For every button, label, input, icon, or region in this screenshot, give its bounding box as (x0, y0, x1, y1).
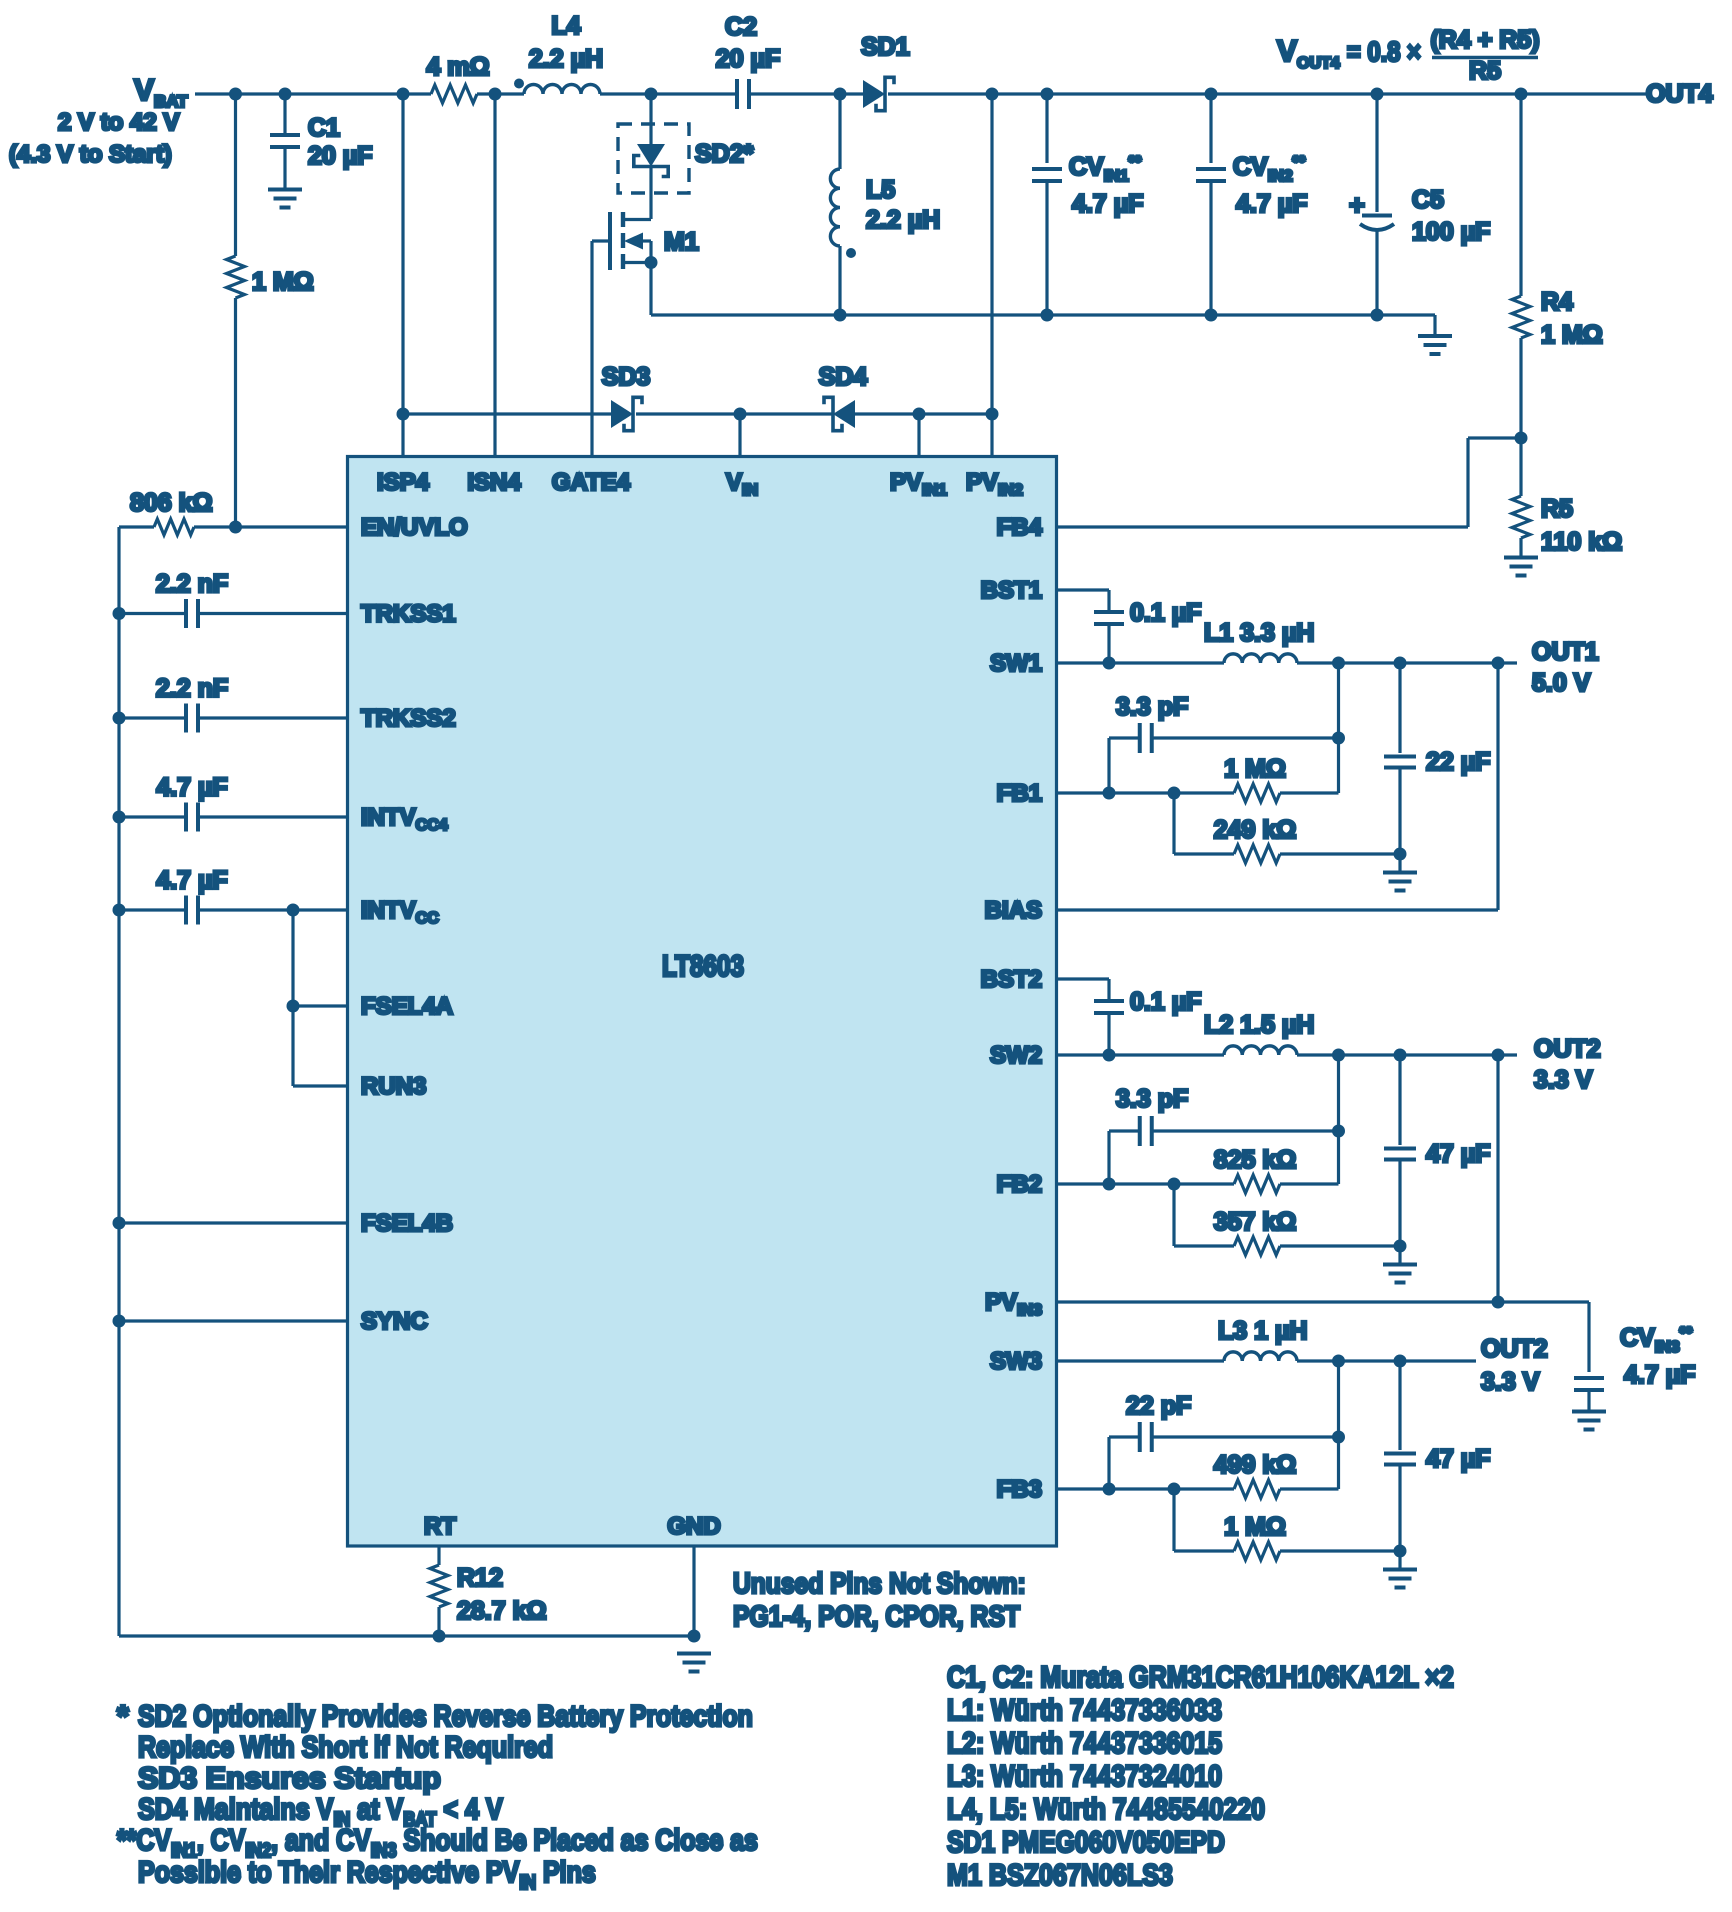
svg-text:FB4: FB4 (997, 514, 1043, 541)
resistor 499 kOhm FB3 (1234, 1480, 1280, 1498)
resistor 357 kOhm (1234, 1237, 1280, 1255)
wire fb vertical ch3 (1337, 1361, 1340, 1489)
phase dot L4 (514, 79, 524, 89)
wire rail between 4mOhm and L4 (477, 92, 524, 95)
wire SD4 to PVIN2 (854, 412, 992, 415)
wire R5 top (1519, 438, 1522, 496)
wire VIN vertical (738, 414, 741, 457)
node SW3 cout junction (1394, 1355, 1407, 1368)
svg-text:SD1: SD1 (861, 33, 910, 61)
wire cap leg down to FB1 (1107, 738, 1110, 793)
node left rail at row 718 (113, 712, 126, 725)
wire 357k row b (1280, 1244, 1400, 1247)
wire left rail vertical (117, 527, 120, 1636)
svg-text:3.3 V: 3.3 V (1481, 1368, 1540, 1396)
wire SD3 row left (403, 412, 612, 415)
svg-text:1 MΩ: 1 MΩ (252, 268, 314, 296)
svg-text:R4: R4 (1541, 288, 1573, 316)
wire M1 drain-source vertical (649, 241, 652, 315)
wire PVIN2 vertical (990, 94, 993, 457)
node SW1 fb junction (1332, 657, 1345, 670)
svg-text:L1: Würth 74437336033: L1: Würth 74437336033 (947, 1693, 1222, 1727)
capacitor 3.3 pF ch2 (1138, 1116, 1142, 1146)
svg-text:825 kΩ: 825 kΩ (1214, 1146, 1297, 1174)
op-amp U1 LT8603 IC body (348, 457, 1057, 1547)
svg-text:499 kΩ: 499 kΩ (1214, 1451, 1297, 1479)
wire CVIN2 bottom (1209, 181, 1212, 315)
svg-text:OUT1: OUT1 (1532, 638, 1599, 666)
svg-text:SD1 PMEG060V050EPD: SD1 PMEG060V050EPD (947, 1825, 1225, 1859)
node fb vertical ch2 at 3.3pF (1332, 1125, 1345, 1138)
wire BST2 stub (1057, 977, 1110, 980)
wire BST2 cap bottom (1107, 1013, 1110, 1055)
svg-text:3.3 V: 3.3 V (1534, 1066, 1593, 1094)
transistor M1 body arrow (624, 233, 643, 250)
node FB1 cap leg (1103, 787, 1116, 800)
wire 1M ch3 row a (1174, 1549, 1234, 1552)
svg-text:FB3: FB3 (997, 1476, 1042, 1503)
wire 1M bottom segment (234, 298, 237, 527)
svg-text:(R4 + R5): (R4 + R5) (1430, 26, 1539, 54)
wire R4 bottom (1519, 338, 1522, 438)
wire PVIN3 row (1057, 1300, 1590, 1303)
node FB2 357k leg (1168, 1178, 1181, 1191)
svg-text:249 kΩ: 249 kΩ (1214, 816, 1297, 844)
svg-text:22 µF: 22 µF (1426, 748, 1490, 776)
node left rail at row 910 (113, 904, 126, 917)
resistor 1 MOhm FB3 (1234, 1542, 1280, 1560)
svg-text:L4: L4 (551, 12, 580, 40)
node junction to CVIN2 (1205, 88, 1218, 101)
capacitor 0.1uF BST1 (1094, 610, 1124, 614)
wire SW1 row to L1 (1057, 661, 1225, 664)
wire FB3 row segment a (1057, 1487, 1235, 1490)
wire R5 bottom (1519, 538, 1522, 556)
capacitor 4.7 µF at row 817 (184, 803, 188, 832)
svg-text:4.7 µF: 4.7 µF (156, 867, 227, 895)
wire 1M top segment (234, 94, 237, 256)
svg-text:OUT2: OUT2 (1534, 1035, 1601, 1063)
svg-text:C1: C1 (308, 114, 340, 142)
wire FB4 to IC (1057, 525, 1469, 528)
capacitor C2 20uF (series) (735, 79, 739, 109)
wire FB4 jog horizontal (1468, 436, 1521, 439)
svg-text:RUN3: RUN3 (361, 1073, 426, 1100)
transistor M1 NMOS gate bar (608, 212, 612, 270)
svg-text:C1, C2: Murata GRM31CR61H106KA: C1, C2: Murata GRM31CR61H106KA12L ×2 (947, 1660, 1454, 1694)
capacitor 47 uF ch2 (1384, 1147, 1416, 1151)
wire GATE4 vertical to M1 gate (590, 241, 593, 457)
svg-text:R5: R5 (1469, 57, 1501, 85)
wire 357k vertical (1172, 1184, 1175, 1246)
capacitor C1 20uF (270, 133, 300, 137)
wire BST2 cap top (1107, 979, 1110, 1000)
wire row y=613.5 left (119, 612, 186, 615)
node PVIN2 at SD4 row (986, 408, 999, 421)
node SW1 cout junction (1394, 657, 1407, 670)
wire FB1 row segment a (1057, 791, 1235, 794)
wire 1M ch3 vertical (1172, 1489, 1175, 1551)
svg-text:TRKSS1: TRKSS1 (361, 601, 456, 628)
svg-text:M1: M1 (664, 228, 699, 256)
capacitor 0.1uF BST2 (1094, 999, 1124, 1003)
resistor R4 1 MOhm (1512, 296, 1530, 338)
svg-text:L3: Würth 74437324010: L3: Würth 74437324010 (947, 1759, 1222, 1793)
wire FSEL4B row (119, 1221, 348, 1224)
node 1M/47uF/gnd ch3 (1394, 1545, 1407, 1558)
wire rail L4 to C2 (600, 92, 737, 95)
svg-text:(4.3 V to Start): (4.3 V to Start) (9, 141, 172, 168)
svg-text:RT: RT (424, 1513, 456, 1540)
wire row y=613.5 right (198, 612, 348, 615)
wire BST1 cap vertical top (1107, 590, 1110, 611)
ground OUT2 ch3 filter (1383, 1568, 1417, 1572)
svg-text:Unused Pins Not Shown:: Unused Pins Not Shown: (733, 1567, 1026, 1599)
wire 357k row a (1174, 1244, 1234, 1247)
svg-text:GATE4: GATE4 (552, 469, 631, 496)
wire L5 bottom (838, 246, 841, 315)
svg-text:L2: Würth 74437336015: L2: Würth 74437336015 (947, 1726, 1222, 1760)
node FB3 cap leg (1103, 1483, 1116, 1496)
node SW1 bias junction (1492, 657, 1505, 670)
capacitor C5 100uF polarized (1362, 214, 1392, 218)
wire 22uF top (1398, 663, 1401, 753)
node SW2 fb junction (1332, 1049, 1345, 1062)
svg-text:4.7 µF: 4.7 µF (1236, 190, 1307, 218)
node FB2 cap leg (1103, 1178, 1116, 1191)
node junction to CVIN1 (1041, 88, 1054, 101)
wire 806k row left (119, 525, 154, 528)
svg-text:+: + (1349, 190, 1365, 220)
ground OUT1 filter (1383, 871, 1417, 875)
capacitor 22 uF (1384, 755, 1416, 759)
wire 22uF gnd stub (1398, 854, 1401, 871)
svg-text:2.2 nF: 2.2 nF (156, 675, 228, 703)
node PVIN3 junction (1492, 1296, 1505, 1309)
node junction to C5 (1371, 88, 1384, 101)
node mid rail L5 (834, 309, 847, 322)
svg-text:806 kΩ: 806 kΩ (130, 489, 213, 517)
svg-text:357 kΩ: 357 kΩ (1214, 1208, 1297, 1236)
ground GND pin (677, 1652, 711, 1656)
wire FB1 row segment b (1280, 791, 1339, 794)
wire row y=718 right (198, 716, 348, 719)
svg-text:22 pF: 22 pF (1126, 1392, 1191, 1420)
wire RUN3 stub (293, 1084, 348, 1087)
wire BST1 stub (1057, 588, 1110, 591)
node mid rail CVIN2 (1205, 309, 1218, 322)
wire CVIN3 bottom (1587, 1390, 1590, 1410)
svg-text:110 kΩ: 110 kΩ (1541, 528, 1622, 556)
wire 3.3pF row right (1152, 736, 1339, 739)
wire BIAS row (1057, 908, 1499, 911)
wire L5 top (838, 94, 841, 169)
svg-text:SD3 Ensures Startup: SD3 Ensures Startup (138, 1762, 441, 1795)
svg-text:4 mΩ: 4 mΩ (426, 53, 489, 81)
svg-text:L5: L5 (866, 176, 895, 204)
node VBAT junction to 1M (229, 88, 242, 101)
svg-text:2.2 µH: 2.2 µH (529, 45, 603, 73)
wire SYNC row (119, 1319, 348, 1322)
svg-text:BST1: BST1 (981, 577, 1042, 604)
diode SD1 schottky (863, 80, 885, 108)
svg-text:BST2: BST2 (981, 966, 1042, 993)
wire SW1 after L1 (1297, 661, 1517, 664)
svg-text:TRKSS2: TRKSS2 (361, 705, 456, 732)
node VBAT junction to ISP4 (397, 88, 410, 101)
svg-text:4.7 µF: 4.7 µF (1624, 1361, 1695, 1389)
wire 47uF ch2 gnd stub (1398, 1246, 1401, 1263)
svg-text:OUT4: OUT4 (1646, 80, 1713, 108)
node 249k/22uF/gnd (1394, 848, 1407, 861)
wire BIAS vertical (1496, 663, 1499, 910)
node FB1 249k leg (1168, 787, 1181, 800)
wire C5 bottom (1375, 231, 1378, 315)
node PVIN1 junction (913, 408, 926, 421)
svg-text:ISP4: ISP4 (377, 469, 430, 496)
wire bottom rail (119, 1634, 694, 1637)
svg-text:GND: GND (667, 1513, 720, 1540)
diode SD2 schottky in dashed box (637, 144, 665, 167)
wire C1 bottom (283, 147, 286, 188)
wire CVIN2 top (1209, 94, 1212, 163)
inductor L1 3.3uH (1224, 654, 1297, 663)
node GND on bottom rail (688, 1630, 701, 1643)
svg-text:28.7 kΩ: 28.7 kΩ (457, 1597, 547, 1625)
wire mid rail under M1/L5/CVIN/C5 (651, 313, 1435, 316)
wire C1 top (283, 94, 286, 135)
node M1 source junction (645, 256, 658, 269)
wire 47uF ch3 top (1398, 1361, 1401, 1450)
ground OUT2 filter (1383, 1263, 1417, 1267)
wire R4 top (1519, 94, 1522, 296)
svg-text:M1 BSZ067N06LS3: M1 BSZ067N06LS3 (947, 1858, 1173, 1892)
ground C1 (268, 188, 302, 192)
capacitor 4.7 µF at row 910 (184, 896, 188, 925)
svg-text:20 µF: 20 µF (716, 45, 780, 73)
wire FB2 row segment a (1057, 1182, 1235, 1185)
node 806k/1M junction (229, 521, 242, 534)
wire 3.3pF row left ch2 (1109, 1129, 1140, 1132)
svg-text:SYNC: SYNC (361, 1308, 428, 1335)
node junction to R4 (1515, 88, 1528, 101)
wire 3.3pF row right ch2 (1152, 1129, 1339, 1132)
capacitor 3.3 pF ch1 (1138, 723, 1142, 753)
svg-text:*: * (117, 1700, 129, 1733)
resistor 1 MOhm (227, 256, 245, 298)
wire INTVCC branch vertical (291, 910, 294, 1086)
svg-text:1 MΩ: 1 MΩ (1224, 755, 1286, 783)
node FSEL4B on rail (113, 1217, 126, 1230)
svg-text:= 0.8 ×: = 0.8 × (1347, 35, 1421, 67)
transistor M1 channel segments (621, 212, 625, 227)
svg-text:ISN4: ISN4 (467, 469, 521, 496)
node SW2 bst cap (1103, 1049, 1116, 1062)
wire 47uF ch3 bottom (1398, 1465, 1401, 1551)
wire CVIN3 top (1587, 1302, 1590, 1372)
svg-text:47 µF: 47 µF (1426, 1140, 1490, 1168)
inductor L2 1.5uH (1224, 1046, 1297, 1055)
wire fb vertical ch1 (1337, 663, 1340, 793)
wire 47uF ch3 gnd stub (1398, 1551, 1401, 1568)
wire rail C2 to SD1 (749, 92, 864, 95)
wire row y=910 right (198, 908, 348, 911)
svg-text:1 MΩ: 1 MΩ (1541, 321, 1603, 349)
wire FB3 row segment b (1280, 1487, 1339, 1490)
wire 47uF ch2 bottom (1398, 1160, 1401, 1246)
svg-text:LT8603: LT8603 (662, 949, 744, 983)
transistor M1 drain connection (623, 218, 651, 221)
wire 22uF bottom (1398, 768, 1401, 854)
wire SW2 row to L2 (1057, 1053, 1225, 1056)
wire PVIN1 vertical (917, 414, 920, 457)
wire FB4 jog vertical (1466, 438, 1469, 527)
capacitor CVIN1 4.7uF (1032, 167, 1062, 171)
svg-text:Replace With Short if Not Requ: Replace With Short if Not Required (138, 1730, 553, 1764)
svg-text:0.1 µF: 0.1 µF (1130, 599, 1201, 627)
diode SD4 schottky (points left) (833, 400, 855, 428)
node FB3 1M leg (1168, 1483, 1181, 1496)
capacitor CVIN2 4.7uF (1196, 167, 1226, 171)
svg-text:20 µF: 20 µF (308, 142, 372, 170)
node 357k/47uF/gnd (1394, 1240, 1407, 1253)
phase dot L5 (846, 248, 856, 258)
capacitor 47 uF ch3 (1384, 1452, 1416, 1456)
resistor 806 kOhm (154, 519, 194, 535)
wire GND vertical (692, 1546, 695, 1636)
node left rail at row 817 (113, 811, 126, 824)
svg-text:EN/UVLO: EN/UVLO (361, 514, 468, 541)
wire C5 top (1375, 94, 1378, 212)
node mid rail CVIN1 (1041, 309, 1054, 322)
node SD3 row at ISP4 (397, 408, 410, 421)
node fb vertical at 3.3pF (1332, 732, 1345, 745)
resistor 249 kOhm (1234, 845, 1280, 863)
wire row y=718 left (119, 716, 186, 719)
node fb vertical ch3 at 22pF (1332, 1431, 1345, 1444)
wire 47uF ch2 top (1398, 1055, 1401, 1145)
svg-text:OUT2: OUT2 (1481, 1335, 1548, 1363)
svg-text:0.1 µF: 0.1 µF (1130, 988, 1201, 1016)
capacitor 22 pF ch3 (1138, 1422, 1142, 1452)
svg-text:FSEL4A: FSEL4A (361, 993, 453, 1020)
svg-text:47 µF: 47 µF (1426, 1445, 1490, 1473)
capacitor CVIN3 4.7uF (1574, 1376, 1604, 1380)
wire rail SD1 to OUT4 (888, 92, 1648, 95)
svg-text:C5: C5 (1412, 186, 1444, 214)
wire CVIN1 bottom (1045, 181, 1048, 315)
svg-text:L2 1.5 µH: L2 1.5 µH (1204, 1011, 1314, 1039)
wire 249k row a (1174, 852, 1234, 855)
svg-text:BIAS: BIAS (985, 897, 1042, 924)
wire RT vertical top (437, 1546, 440, 1565)
resistor R5 110 kOhm (1512, 496, 1530, 538)
wire SD2 anode from rail (649, 94, 652, 145)
svg-text:SD3: SD3 (602, 363, 651, 391)
svg-text:SD2*: SD2* (695, 140, 754, 168)
wire 1M ch3 row b (1280, 1549, 1400, 1552)
svg-text:SD4: SD4 (819, 363, 868, 391)
node SW2 pvin3 junction (1492, 1049, 1505, 1062)
dashed optional box for SD2 (618, 124, 689, 193)
wire PVIN3 vertical from OUT2 (1496, 1055, 1499, 1302)
diode SD3 schottky (611, 400, 633, 428)
node SW1 bst cap (1103, 657, 1116, 670)
svg-text:PG1-4, POR, CPOR, RST: PG1-4, POR, CPOR, RST (733, 1600, 1020, 1632)
inductor L3 1uH (1224, 1352, 1297, 1361)
svg-text:3.3 pF: 3.3 pF (1116, 693, 1188, 721)
svg-text:2 V to 42 V: 2 V to 42 V (58, 109, 179, 136)
wire 3.3pF row left (1109, 736, 1140, 739)
wire ISP4 vertical (401, 94, 404, 457)
svg-text:R5: R5 (1541, 495, 1573, 523)
node FSEL4A junction (287, 1000, 300, 1013)
node left rail at row 613.5 (113, 607, 126, 620)
svg-text:FSEL4B: FSEL4B (361, 1210, 453, 1237)
node junction after 4mOhm to ISN4 (489, 88, 502, 101)
svg-text:2.2 µH: 2.2 µH (866, 206, 940, 234)
ground mid rail (1433, 315, 1436, 336)
svg-text:100 µF: 100 µF (1412, 218, 1490, 246)
svg-text:1 MΩ: 1 MΩ (1224, 1513, 1286, 1541)
capacitor 2.2 nF at row 718 (184, 704, 188, 733)
wire VBAT rail left segment (195, 92, 431, 95)
svg-text:L4, L5: Würth 74485540220: L4, L5: Würth 74485540220 (947, 1792, 1265, 1826)
wire row y=817 right (198, 815, 348, 818)
node VBAT junction to C1 (279, 88, 292, 101)
svg-text:C2: C2 (725, 13, 757, 41)
wire SW3 row to L3 (1057, 1359, 1225, 1362)
wire M1 gate lead (592, 239, 610, 242)
svg-text:5.0 V: 5.0 V (1532, 669, 1591, 697)
node INTVCC junction to FSEL4A/RUN3 (287, 904, 300, 917)
wire ISN4 vertical (493, 94, 496, 457)
svg-text:2.2 nF: 2.2 nF (156, 570, 228, 598)
resistor 825 kOhm FB2 (1234, 1175, 1280, 1193)
node VIN junction (734, 408, 747, 421)
wire CVIN1 top (1045, 94, 1048, 163)
wire cap leg down to FB3 (1107, 1437, 1110, 1489)
node RT on bottom rail (433, 1630, 446, 1643)
svg-text:L1 3.3 µH: L1 3.3 µH (1204, 619, 1314, 647)
node junction L4/C2 to SD2 (645, 88, 658, 101)
wire SD2 cathode to M1 drain (649, 167, 652, 220)
ground CVIN3 (1572, 1410, 1606, 1414)
wire SW2 after L2 (1297, 1053, 1517, 1056)
node junction to PVIN2 (986, 88, 999, 101)
inductor L4 2.2uH (524, 85, 600, 95)
wire cap leg down to FB2 (1107, 1131, 1110, 1184)
svg-text:FB1: FB1 (997, 780, 1042, 807)
svg-text:R12: R12 (457, 1564, 503, 1592)
node junction to L5 (834, 88, 847, 101)
capacitor 2.2 nF at row 613.5 (184, 599, 188, 628)
resistor 4 mOhm sense (431, 85, 477, 103)
wire 249k vertical (1172, 793, 1175, 854)
wire RT vertical bottom (437, 1607, 440, 1636)
svg-text:L3 1 µH: L3 1 µH (1218, 1317, 1307, 1345)
wire row y=817 left (119, 815, 186, 818)
resistor 1 MOhm FB1 (1234, 784, 1280, 802)
wire 22pF row right (1152, 1435, 1339, 1438)
wire row y=910 left (119, 908, 186, 911)
wire SD3 to SD4 (636, 412, 834, 415)
svg-text:SW3: SW3 (990, 1348, 1042, 1375)
svg-text:3.3 pF: 3.3 pF (1116, 1085, 1188, 1113)
node R4/R5 junction (1515, 432, 1528, 445)
node mid rail C5 (1371, 309, 1384, 322)
transistor M1 source connection (623, 261, 651, 264)
